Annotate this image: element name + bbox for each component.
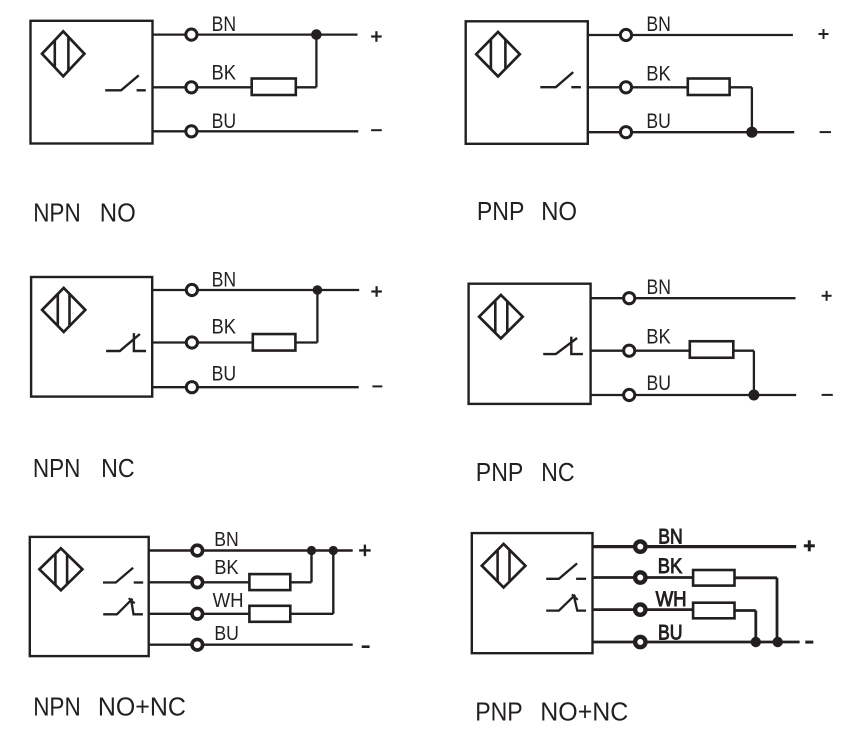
svg-text:BU: BU [647, 372, 672, 395]
svg-text:BN: BN [647, 276, 672, 299]
svg-text:NO+NC: NO+NC [540, 698, 628, 726]
svg-text:BN: BN [214, 529, 239, 551]
svg-text:BK: BK [646, 63, 671, 86]
svg-text:NO: NO [541, 198, 577, 226]
svg-text:WH: WH [656, 588, 687, 611]
svg-text:BN: BN [646, 13, 671, 36]
svg-text:BK: BK [658, 555, 683, 578]
svg-text:BK: BK [646, 325, 671, 348]
svg-text:NO: NO [100, 199, 136, 227]
svg-text:BU: BU [646, 110, 671, 133]
svg-text:BK: BK [212, 62, 237, 85]
svg-text:WH: WH [213, 590, 244, 612]
svg-text:PNP: PNP [477, 198, 525, 226]
svg-text:BK: BK [214, 557, 239, 579]
svg-text:BU: BU [214, 623, 239, 645]
svg-text:BU: BU [658, 621, 683, 644]
svg-text:BK: BK [212, 315, 237, 338]
svg-text:NC: NC [101, 455, 135, 483]
svg-text:BN: BN [212, 13, 237, 36]
svg-text:PNP: PNP [476, 459, 524, 487]
svg-text:NO+NC: NO+NC [98, 693, 186, 721]
svg-text:NC: NC [541, 459, 575, 487]
svg-text:BN: BN [212, 268, 237, 291]
svg-text:NPN: NPN [33, 455, 81, 483]
svg-text:NPN: NPN [33, 693, 80, 721]
svg-text:BN: BN [658, 526, 683, 549]
svg-text:BU: BU [212, 110, 237, 133]
svg-text:BU: BU [212, 363, 237, 386]
svg-text:PNP: PNP [475, 698, 523, 726]
svg-text:NPN: NPN [33, 199, 80, 227]
